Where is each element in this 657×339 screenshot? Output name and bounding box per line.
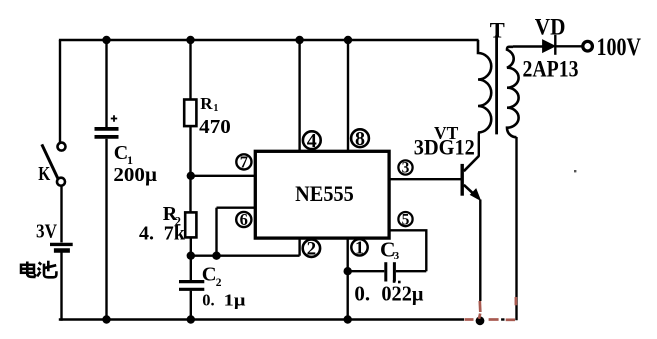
label battery 电池 (drawn strokes) <box>21 261 56 278</box>
IC U1 NE555 body <box>255 151 389 238</box>
junction node pin1 C3 <box>344 267 352 275</box>
svg-text:3: 3 <box>402 160 410 177</box>
svg-text:3: 3 <box>394 250 400 262</box>
svg-text:R: R <box>200 94 213 113</box>
junction top rail C1 <box>102 36 110 44</box>
wire secondary top to diode <box>513 45 543 47</box>
wire pin1 to C3 <box>348 270 385 272</box>
resistor R2 4.7k <box>185 212 196 237</box>
label 0.022u <box>354 282 423 306</box>
pin circle 5 <box>398 211 412 228</box>
wire C2 to ground <box>190 291 192 321</box>
resistor R1 470 <box>184 100 196 127</box>
svg-text:100V: 100V <box>597 34 642 61</box>
wire pin 2 lead <box>298 238 300 256</box>
output terminal 100V <box>583 41 593 51</box>
wire pin 5 lead <box>389 230 427 271</box>
transistor VT 3DG12 <box>462 133 481 301</box>
svg-text:022μ: 022μ <box>381 282 423 306</box>
wire bottom ground rail <box>59 318 464 320</box>
svg-text:4: 4 <box>307 130 317 152</box>
wire secondary bottom to ground <box>515 137 517 320</box>
label C3 <box>380 237 400 262</box>
wire R branch upper <box>189 40 191 100</box>
svg-text:1: 1 <box>355 237 364 257</box>
wire pin 6 vertical <box>215 208 217 256</box>
pin circle 1 <box>351 237 367 257</box>
svg-text:T: T <box>490 18 505 43</box>
svg-text:3DG12: 3DG12 <box>414 134 475 159</box>
label 4.7k <box>139 222 186 244</box>
wire R1 to node pin7 <box>189 126 191 212</box>
transformer T primary winding <box>478 40 491 133</box>
label R2 <box>163 203 181 228</box>
pin circle 3 <box>398 160 412 177</box>
wire C3 to pin5 branch <box>396 270 426 272</box>
svg-text:4.: 4. <box>139 222 154 244</box>
junction top rail R1 <box>186 36 194 44</box>
svg-text:0.: 0. <box>354 282 370 306</box>
wire top supply rail <box>59 39 479 41</box>
red retouch dashes bottom right <box>465 297 516 320</box>
scan speck right <box>574 170 576 172</box>
junction top rail pin4 <box>295 36 303 44</box>
junction bottom rail pin1 <box>344 315 352 323</box>
scan specks above 022 <box>393 280 401 283</box>
battery GB 3V <box>50 244 73 250</box>
wire node bus pins 2 and 6 <box>191 254 300 256</box>
svg-text:6: 6 <box>240 210 248 229</box>
wire battery to ground rail <box>60 253 62 321</box>
svg-text:8: 8 <box>355 128 365 150</box>
svg-text:2: 2 <box>216 277 222 289</box>
wire pin 1 lead to ground <box>347 238 349 321</box>
label C2 <box>202 264 222 289</box>
svg-text:VD: VD <box>535 15 566 40</box>
transformer T secondary winding <box>507 47 519 137</box>
pin circle 4 <box>303 130 321 152</box>
svg-text:7: 7 <box>240 152 248 171</box>
pin circle 6 <box>236 210 251 229</box>
svg-text:C: C <box>202 264 217 286</box>
wire diode to output <box>557 45 584 47</box>
svg-text:2AP13: 2AP13 <box>523 57 579 82</box>
svg-text:0.: 0. <box>202 290 214 309</box>
junction node R2 C2 <box>187 252 195 260</box>
wire R2 bottom to C2 <box>190 237 192 280</box>
svg-text:3V: 3V <box>36 220 57 242</box>
junction bottom rail C2 <box>187 315 195 323</box>
black dash in ground rail gap <box>501 318 504 320</box>
junction node pin7 R1 R2 <box>187 172 195 180</box>
svg-text:NE555: NE555 <box>295 181 354 206</box>
wire pin 4 lead <box>298 40 300 151</box>
wire pin 7 lead <box>191 175 257 177</box>
label C1 <box>114 142 133 167</box>
svg-text:1: 1 <box>213 103 218 114</box>
capacitor C1 polarized <box>95 115 119 137</box>
svg-text:1μ: 1μ <box>224 290 246 309</box>
transformer core <box>495 35 498 134</box>
svg-text:K: K <box>38 163 50 185</box>
capacitor C3 <box>386 262 395 281</box>
junction node pin6 bus <box>212 252 220 260</box>
pin circle 8 <box>351 128 369 150</box>
junction emitter ground <box>476 316 485 325</box>
wire pin 3 lead <box>389 178 462 180</box>
svg-text:2: 2 <box>307 239 317 260</box>
svg-text:5: 5 <box>402 211 410 228</box>
wire C1 branch upper <box>105 40 107 127</box>
switch K <box>42 143 66 186</box>
svg-text:7k: 7k <box>164 222 186 244</box>
wire C1 lower <box>105 139 107 321</box>
svg-text:470: 470 <box>199 116 231 138</box>
wire pin 6 lead <box>217 206 257 208</box>
pin circle 7 <box>236 152 251 171</box>
wire left branch from rail to switch <box>59 40 61 142</box>
junction bottom rail C1 <box>102 315 110 323</box>
pin circle 2 <box>303 239 320 260</box>
label 0.1u <box>202 290 246 309</box>
wire switch to battery <box>60 186 62 243</box>
junction top rail pin8 <box>344 36 352 44</box>
label R1 <box>200 94 218 114</box>
diode VD 2AP13 <box>543 35 555 55</box>
wire pin 8 lead <box>347 40 349 151</box>
capacitor C2 <box>179 282 204 290</box>
svg-text:200μ: 200μ <box>113 164 157 186</box>
